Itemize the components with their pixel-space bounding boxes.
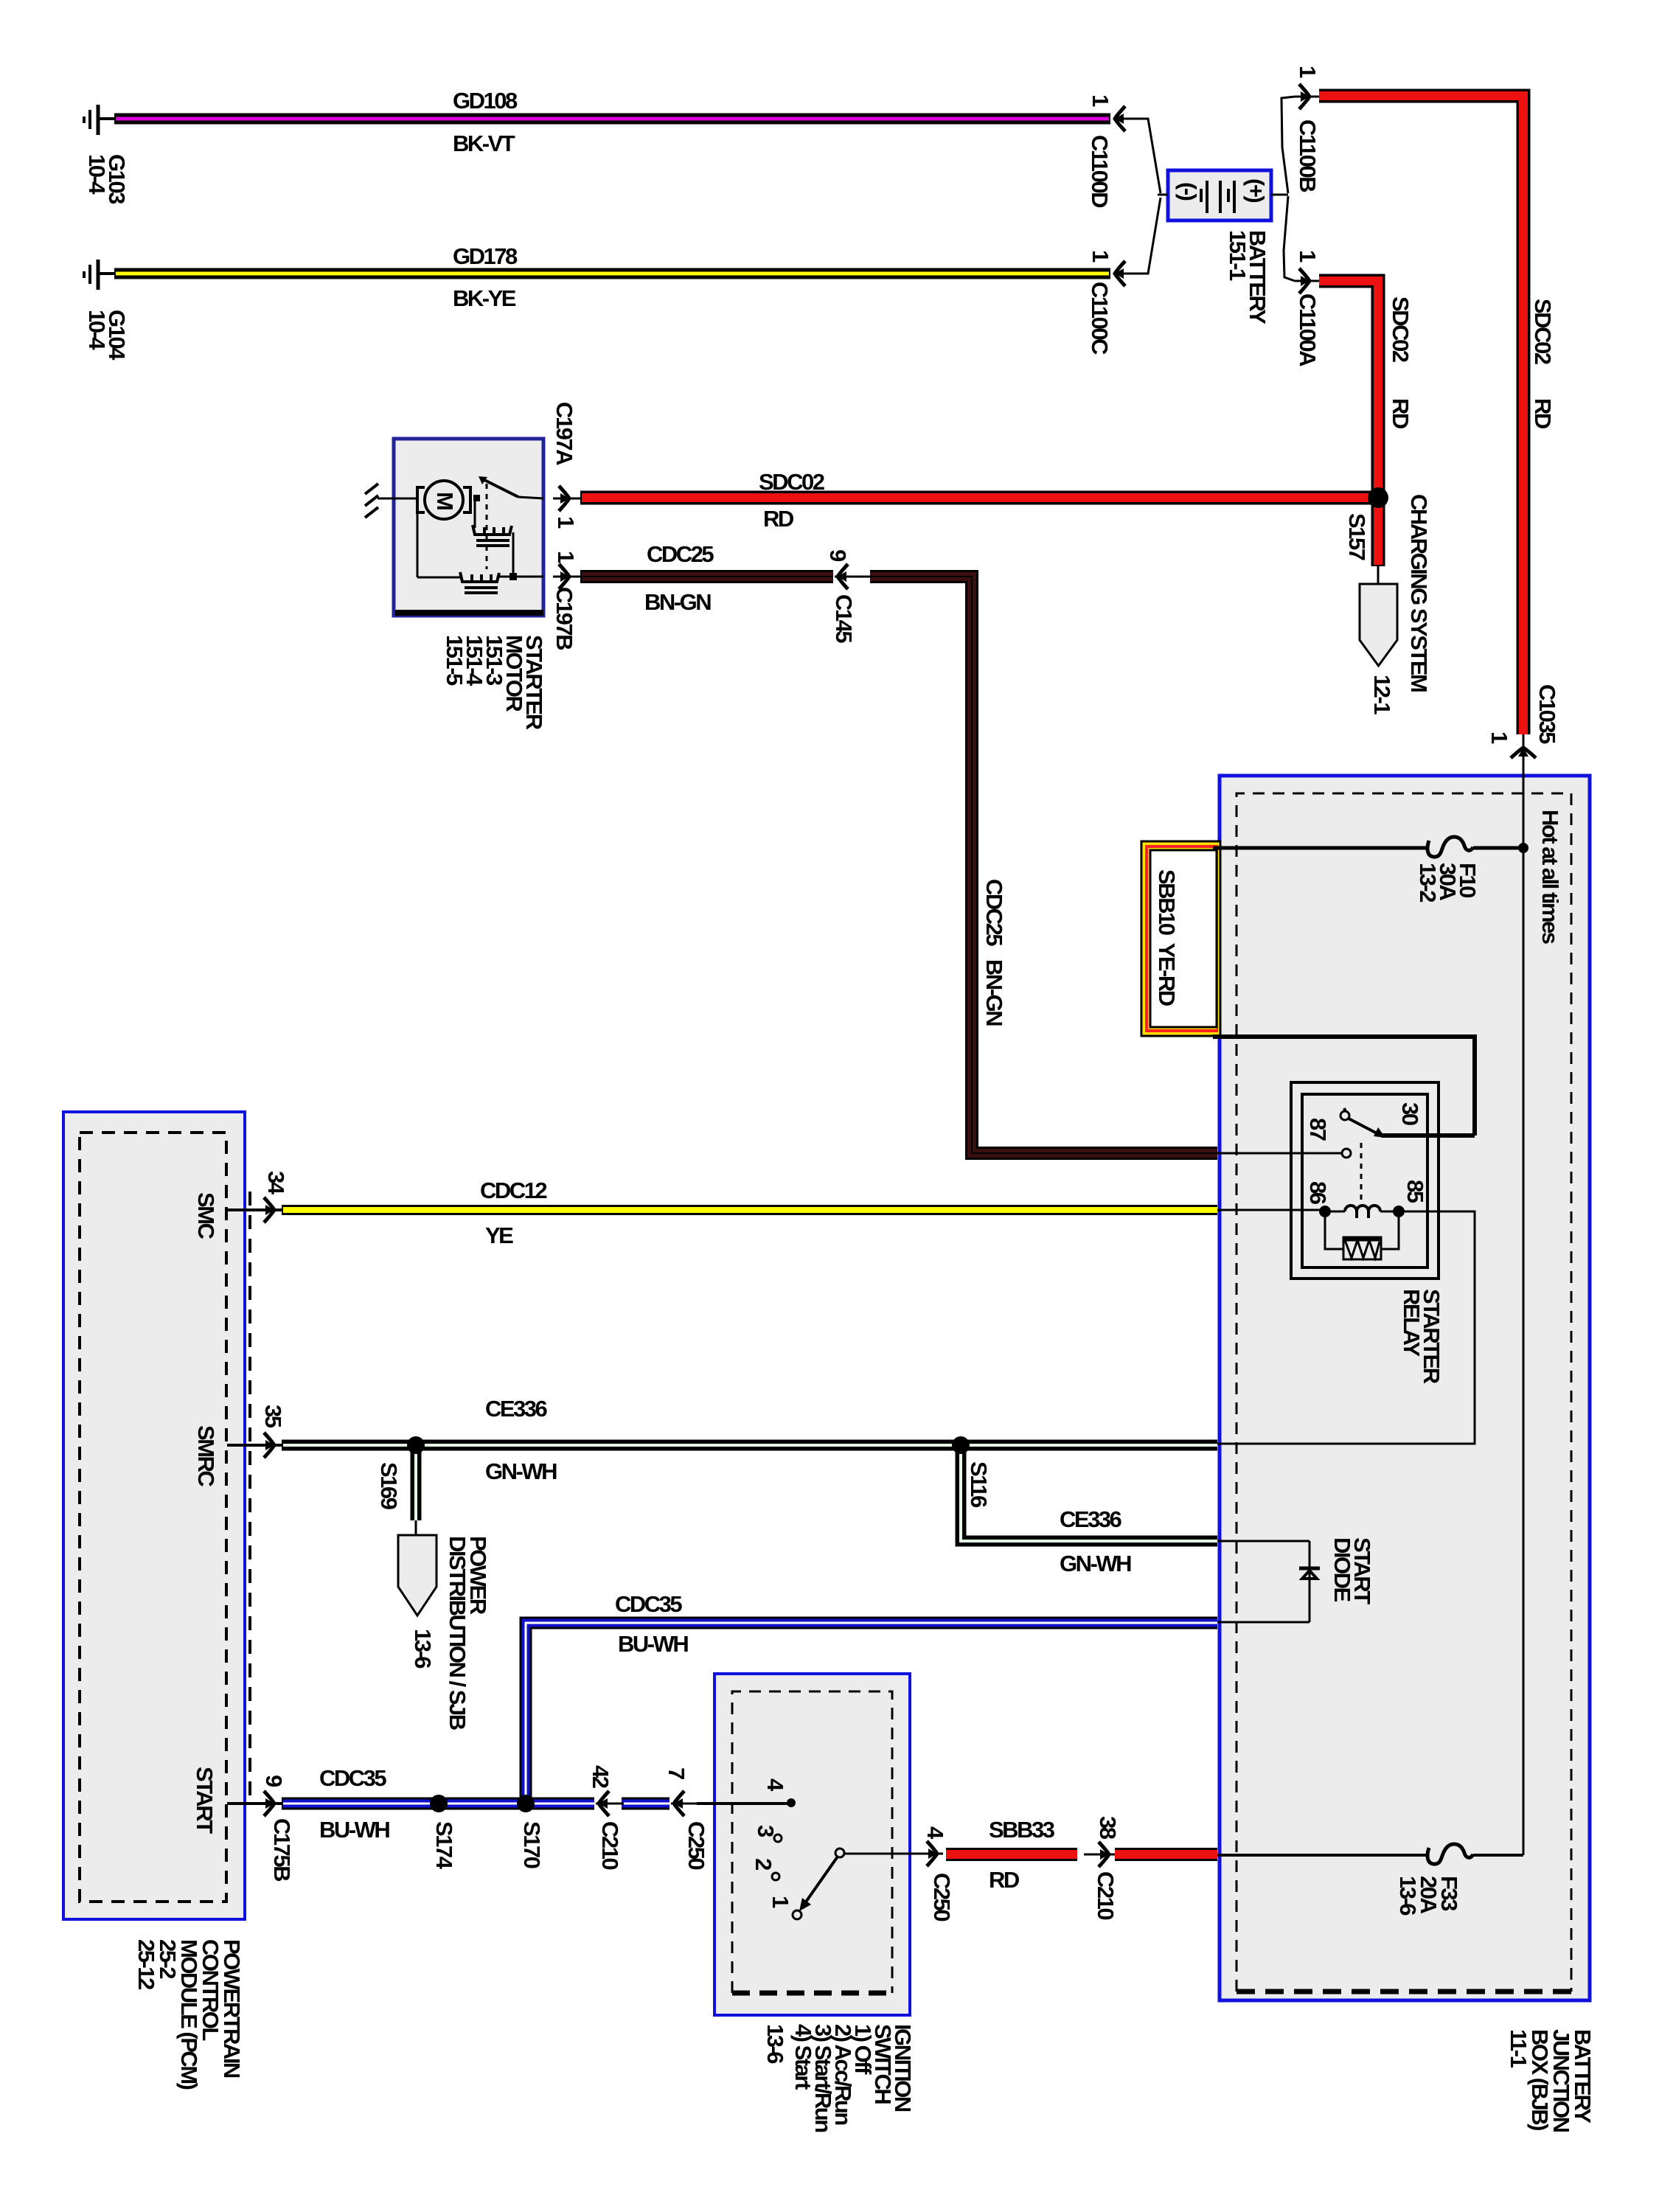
svg-text:C1035: C1035 (1534, 684, 1560, 744)
svg-text:S169: S169 (376, 1462, 402, 1510)
svg-text:SBB10 YE-RD: SBB10 YE-RD (1154, 869, 1180, 1006)
wire CDC25 BN-GN starter C197B to C145 (580, 570, 833, 583)
svg-text:CDC12: CDC12 (480, 1178, 546, 1203)
power distribution SJB off-page connector pentagon (398, 1535, 437, 1615)
svg-text:87: 87 (1305, 1118, 1331, 1141)
wire stub S157 to charging system pentagon (1377, 566, 1380, 584)
svg-text:START: START (192, 1767, 218, 1834)
svg-text:C210: C210 (1093, 1871, 1119, 1919)
svg-text:1: 1 (1486, 731, 1512, 744)
svg-text:SMC: SMC (193, 1192, 219, 1239)
wire hot feed vertical inside BJB from F10 down to F33 (1523, 848, 1525, 1855)
svg-text:CHARGING SYSTEM: CHARGING SYSTEM (1406, 494, 1432, 692)
svg-text:85: 85 (1402, 1180, 1428, 1203)
svg-text:SDC02: SDC02 (1530, 299, 1556, 364)
wire CDC35 BU-WH from BJB diode left then down to S170 (526, 1623, 1217, 1804)
PCM connector dashed line C175 (248, 1192, 251, 1804)
wire CDC35 BU-WH from PCM pin 9 through S174 S170 to C210 (282, 1798, 594, 1810)
battery junction box BJB outline (1220, 776, 1590, 2000)
svg-text:1: 1 (553, 551, 579, 563)
starter relay (1291, 1082, 1475, 1279)
node F10 junction dot (1518, 843, 1528, 853)
svg-text:DIODE: DIODE (1329, 1537, 1355, 1602)
svg-text:CE336: CE336 (1060, 1506, 1122, 1532)
wire SDC02 RD horizontal from starter C197A to S157 (580, 491, 1371, 505)
starter motor box (394, 439, 543, 616)
PCM module box (63, 1112, 245, 1919)
wire SDC02 RD battery C1100A down to S157 and charging system (1319, 281, 1378, 566)
svg-text:C197B: C197B (552, 587, 577, 650)
svg-text:CDC25: CDC25 (647, 541, 714, 567)
svg-text:1: 1 (1295, 250, 1321, 262)
wire battery positive to C1100B (1281, 97, 1295, 193)
fuse F10 element (1427, 837, 1473, 857)
svg-text:35: 35 (260, 1405, 286, 1428)
connector C1100C arrow (1113, 261, 1149, 286)
svg-text:C1100D: C1100D (1087, 135, 1113, 208)
wire relay 86 stub to CDC12 (1217, 1209, 1321, 1211)
svg-text:CDC35: CDC35 (615, 1591, 682, 1617)
wire C1100C lead to battery negative (1121, 198, 1161, 274)
svg-text:GD108: GD108 (453, 88, 518, 114)
wire SBB10 bottom feed to relay 30 (1213, 1037, 1475, 1135)
svg-text:13-6: 13-6 (1395, 1876, 1421, 1916)
battery box (1168, 170, 1271, 220)
ignition switch box (714, 1674, 910, 2015)
wire CE336 GN-WH from PCM pin 35 through S169 S116 to BJB (282, 1440, 1217, 1451)
svg-text:SDC02: SDC02 (759, 469, 824, 495)
fuse F33 wire (1217, 1854, 1427, 1857)
ground G104 (84, 260, 115, 290)
SBB10 bus bar box (1141, 841, 1220, 1036)
svg-text:C175B: C175B (269, 1818, 295, 1881)
svg-text:10-4: 10-4 (84, 154, 110, 195)
svg-text:CE336: CE336 (485, 1396, 548, 1422)
connector PCM pin 9 arrow C175B (227, 1791, 283, 1816)
wire GD178 BK-YE from G104 to C1100C (114, 268, 1110, 279)
svg-text:CDC25: CDC25 (981, 879, 1007, 946)
connector C145 arrow pin 9 (835, 564, 872, 589)
connector C197B arrow pin 1 (553, 564, 580, 589)
wire relay 85 to CE336 (1217, 1211, 1475, 1444)
wire C1100D lead to battery negative (1121, 119, 1161, 193)
wire CDC12 YE from PCM pin 34 to BJB relay 86 (282, 1205, 1217, 1215)
connector C250 pin 7 arrow (671, 1791, 699, 1816)
wire into ignition switch pin 7 contact 4 (697, 1802, 789, 1805)
svg-text:38: 38 (1095, 1816, 1121, 1840)
connector C1035 arc symbol (1511, 748, 1536, 758)
node S116 junction dot (952, 1436, 970, 1454)
svg-text:86: 86 (1305, 1181, 1331, 1205)
svg-text:3: 3 (753, 1825, 779, 1837)
svg-text:C210: C210 (597, 1821, 623, 1869)
connector PCM pin 35 arrow (227, 1433, 283, 1458)
fuse F33 element (1427, 1844, 1473, 1864)
wire SBB33 RD from C210 to BJB F33 (1115, 1848, 1217, 1861)
svg-text:YE: YE (485, 1222, 513, 1248)
svg-text:DISTRIBUTION / SJB: DISTRIBUTION / SJB (445, 1536, 470, 1730)
battery internals (1158, 181, 1288, 213)
svg-text:C250: C250 (929, 1873, 955, 1921)
wire SDC02 RD battery C1100B to C1035 (right vertical run) (1319, 96, 1523, 734)
svg-text:9: 9 (261, 1775, 287, 1787)
svg-text:7: 7 (664, 1767, 689, 1779)
svg-text:BN-GN: BN-GN (644, 589, 711, 615)
connector C197A arrow pin 1 (553, 486, 580, 511)
svg-text:30: 30 (1397, 1102, 1423, 1125)
charging system off-page connector pentagon (1360, 584, 1397, 666)
svg-text:GD178: GD178 (453, 243, 518, 269)
svg-text:(+): (+) (1243, 178, 1269, 202)
wire SBB33 RD from C250 to C210 (946, 1848, 1077, 1861)
svg-text:SMRC: SMRC (193, 1425, 219, 1486)
wire CDC25 BN-GN from C145 to BJB relay 87 (870, 577, 1217, 1153)
svg-text:S174: S174 (431, 1821, 457, 1870)
svg-text:(-): (-) (1175, 182, 1201, 201)
svg-text:1: 1 (1088, 250, 1113, 262)
svg-text:151-1: 151-1 (1225, 230, 1251, 281)
svg-text:13-6: 13-6 (410, 1629, 436, 1669)
wire relay 87 stub to CDC25 (1217, 1149, 1351, 1158)
svg-text:SDC02: SDC02 (1388, 296, 1413, 362)
svg-text:1: 1 (1295, 66, 1321, 78)
connector C250 pin 4 arrow (919, 1841, 943, 1866)
wire C1035 into BJB to fuse F10 junction (1523, 734, 1525, 848)
connector C1100B arrow (1295, 84, 1319, 109)
svg-text:S170: S170 (519, 1821, 545, 1868)
fuse F10 wire from SBB10 (1213, 846, 1427, 850)
svg-text:2: 2 (751, 1858, 776, 1870)
connector C210 pin 42 arrow (596, 1791, 624, 1816)
svg-text:RELAY: RELAY (1399, 1289, 1425, 1357)
svg-text:C1100C: C1100C (1087, 282, 1113, 355)
svg-text:4: 4 (922, 1826, 948, 1840)
svg-text:C197A: C197A (552, 402, 577, 465)
svg-text:BU-WH: BU-WH (618, 1631, 688, 1657)
node S174 junction dot (430, 1795, 448, 1812)
svg-text:13-6: 13-6 (762, 2024, 788, 2064)
svg-text:BN-GN: BN-GN (981, 959, 1007, 1026)
svg-text:C1100B: C1100B (1295, 119, 1321, 192)
svg-text:RD: RD (1530, 398, 1556, 429)
start diode (1299, 1541, 1320, 1622)
svg-text:RD: RD (989, 1867, 1020, 1893)
svg-text:M: M (432, 492, 458, 509)
starter motor case ground (365, 484, 394, 518)
wire battery positive to C1100A (1284, 196, 1295, 281)
svg-text:34: 34 (263, 1171, 289, 1195)
ground G103 (84, 105, 115, 135)
svg-text:S116: S116 (966, 1461, 992, 1508)
node S170 junction dot (517, 1795, 535, 1812)
svg-text:9: 9 (825, 549, 851, 562)
node S169 junction dot (407, 1436, 425, 1454)
wire CDC35 BU-WH between C210 and C250 (622, 1798, 669, 1810)
svg-text:CDC35: CDC35 (319, 1765, 386, 1791)
svg-text:151-5: 151-5 (442, 635, 467, 686)
node S157 junction dot (1368, 487, 1388, 508)
svg-text:12-1: 12-1 (1369, 675, 1395, 714)
svg-text:1: 1 (768, 1896, 793, 1908)
wire GD108 BK-VT from G103 to C1100D (114, 114, 1110, 125)
svg-text:Hot at all times: Hot at all times (1537, 810, 1563, 944)
wire CE336 GN-WH branch S116 down and right to start diode (961, 1450, 1217, 1541)
svg-text:BU-WH: BU-WH (319, 1817, 389, 1843)
svg-text:SBB33: SBB33 (989, 1817, 1055, 1843)
svg-text:BK-YE: BK-YE (453, 285, 516, 311)
connector C210 pin 38 arrow (1084, 1842, 1115, 1867)
svg-text:1: 1 (553, 516, 579, 529)
svg-text:10-4: 10-4 (84, 310, 110, 350)
svg-text:C250: C250 (684, 1821, 709, 1869)
connector C1100A arrow (1295, 268, 1319, 293)
svg-text:42: 42 (588, 1765, 613, 1788)
svg-text:GN-WH: GN-WH (485, 1458, 557, 1484)
svg-text:RD: RD (1388, 398, 1413, 429)
svg-text:RD: RD (763, 506, 794, 532)
wire from ignition switch wiper to C250 pin 4 (844, 1853, 923, 1855)
svg-text:1: 1 (1088, 94, 1113, 107)
wire CE336 lower branch to start diode (1217, 1540, 1310, 1543)
connector C1100D arrow (1113, 106, 1149, 131)
svg-text:25-12: 25-12 (133, 1939, 159, 1989)
svg-text:4) Start: 4) Start (790, 2024, 816, 2090)
wire CE336 GN-WH stub S169 down to SJB pentagon (411, 1451, 422, 1535)
svg-text:C1100A: C1100A (1295, 293, 1321, 366)
svg-text:GN-WH: GN-WH (1060, 1551, 1131, 1576)
connector PCM pin 34 arrow (227, 1197, 283, 1222)
svg-text:BK-VT: BK-VT (453, 131, 515, 156)
svg-text:C145: C145 (831, 594, 857, 643)
svg-text:11-1: 11-1 (1506, 2029, 1531, 2068)
svg-text:S157: S157 (1344, 513, 1370, 560)
wire diode bottom to CDC35 (1217, 1621, 1310, 1624)
svg-text:13-2: 13-2 (1415, 863, 1441, 902)
